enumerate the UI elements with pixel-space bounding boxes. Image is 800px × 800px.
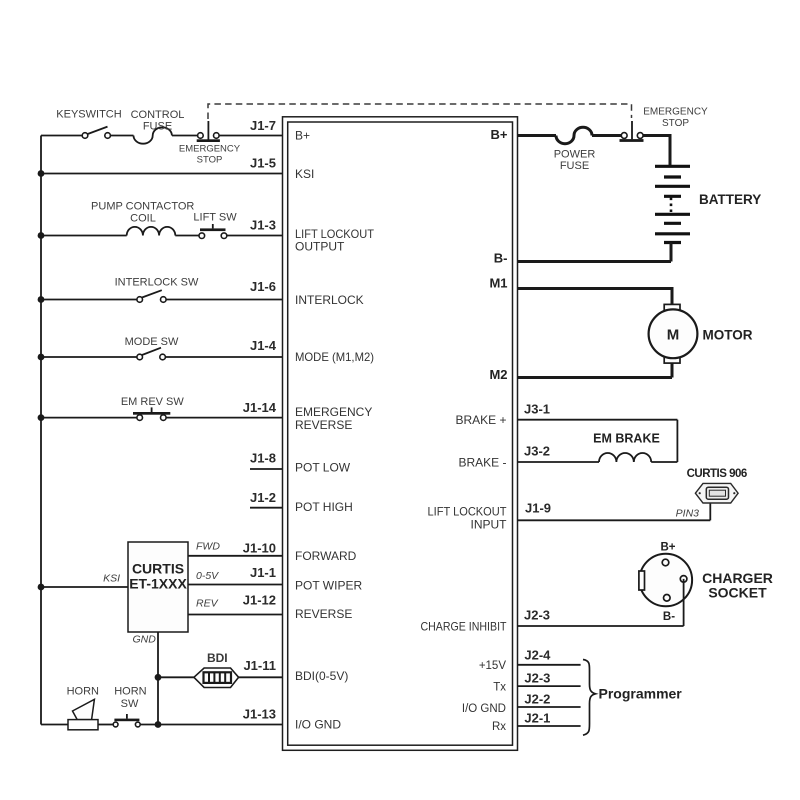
svg-text:J1-1: J1-1 [250,565,276,580]
svg-text:MODE SW: MODE SW [125,336,179,348]
wire battery bottom to B- [518,243,672,262]
svg-text:B-: B- [494,251,508,266]
svg-text:Rx: Rx [492,721,506,733]
svg-text:M: M [667,327,680,344]
svg-text:EM REV SW: EM REV SW [121,396,185,408]
wire J1-4 row [41,356,283,358]
em rev switch [133,407,170,420]
svg-text:J1-11: J1-11 [243,658,276,673]
svg-text:HORN: HORN [67,686,99,698]
svg-text:SW: SW [121,698,139,710]
control fuse [134,127,172,143]
svg-text:FUSE: FUSE [560,160,589,172]
svg-text:FUSE: FUSE [143,121,172,133]
svg-text:J1-7: J1-7 [250,118,276,133]
wire J1-5 row [41,173,283,175]
svg-text:MOTOR: MOTOR [703,328,753,343]
horn switch [113,714,140,727]
power fuse [556,127,592,143]
left vertical bus wire [40,136,42,725]
svg-text:J1-2: J1-2 [250,490,276,505]
svg-text:0-5V: 0-5V [196,570,219,582]
em brake coil [599,453,651,462]
svg-text:ET-1XXX: ET-1XXX [129,576,187,592]
junction dot [38,296,45,303]
svg-text:J2-3: J2-3 [524,670,550,685]
mode switch [137,348,166,360]
svg-text:I/O GND: I/O GND [295,718,341,732]
svg-text:I/O GND: I/O GND [462,703,506,715]
horn [68,699,98,730]
svg-text:BRAKE -: BRAKE - [458,455,506,469]
svg-text:J1-5: J1-5 [250,156,276,171]
svg-text:J2-3: J2-3 [524,608,550,623]
svg-text:EM BRAKE: EM BRAKE [593,431,660,445]
svg-text:SOCKET: SOCKET [708,585,767,601]
svg-text:COIL: COIL [130,213,156,225]
svg-text:CURTIS: CURTIS [132,561,184,577]
emergency stop switch (left) [197,121,220,142]
svg-text:CONTROL: CONTROL [131,109,185,121]
svg-text:J1-10: J1-10 [243,541,276,556]
wire J1-11 row [158,676,283,678]
svg-text:BDI: BDI [207,651,228,665]
svg-text:Tx: Tx [493,681,506,693]
svg-text:FORWARD: FORWARD [295,549,357,563]
svg-text:INTERLOCK SW: INTERLOCK SW [115,276,199,288]
svg-text:HORN: HORN [114,686,146,698]
keyswitch [82,127,110,139]
svg-text:BRAKE +: BRAKE + [455,413,506,427]
emergency stop switch (right) [620,121,644,142]
wire J1-3 row [41,235,283,237]
svg-text:J3-2: J3-2 [524,443,550,458]
battery [655,166,690,242]
svg-text:STOP: STOP [662,118,689,129]
svg-text:M2: M2 [489,367,507,382]
pump contactor coil [127,227,176,236]
svg-text:EMERGENCY: EMERGENCY [179,143,241,154]
svg-text:STOP: STOP [197,155,223,166]
svg-text:REVERSE: REVERSE [295,607,352,621]
svg-text:J2-4: J2-4 [524,647,551,662]
svg-text:B+: B+ [295,129,310,143]
svg-text:EMERGENCY: EMERGENCY [643,107,708,118]
svg-text:KSI: KSI [295,167,314,181]
svg-text:J2-1: J2-1 [524,710,550,725]
svg-text:MODE (M1,M2): MODE (M1,M2) [295,350,374,364]
wire J1-9 row [518,503,711,521]
wire J1-2 stub [250,507,283,509]
programmer wires J2-4..J2-1 [518,665,581,726]
svg-text:+15V: +15V [479,660,507,672]
svg-text:B+: B+ [660,542,675,554]
svg-text:INTERLOCK: INTERLOCK [295,293,364,307]
svg-text:REVERSE: REVERSE [295,418,352,432]
BDI gauge symbol [194,668,239,688]
svg-text:FWD: FWD [196,541,220,553]
svg-text:CURTIS 906: CURTIS 906 [687,468,747,480]
charger socket [639,554,692,626]
svg-text:REV: REV [196,597,219,609]
throttle box CURTIS ET-1XXX [128,542,188,632]
svg-text:BATTERY: BATTERY [699,192,761,207]
svg-text:OUTPUT: OUTPUT [295,240,345,254]
svg-text:J1-6: J1-6 [250,279,276,294]
svg-text:INPUT: INPUT [471,518,508,532]
svg-text:POT LOW: POT LOW [295,461,351,475]
wire J1-1 row [188,584,283,586]
lift switch [199,224,227,239]
svg-text:PIN3: PIN3 [676,507,700,519]
svg-text:Programmer: Programmer [599,686,683,702]
svg-text:M1: M1 [489,276,507,291]
svg-text:BDI(0-5V): BDI(0-5V) [295,669,348,683]
svg-text:B-: B- [663,611,675,623]
junction dot [38,584,45,591]
wire J1-14 row [41,417,283,419]
wire J1-8 stub [250,468,283,470]
wire brake+ row / em brake box [518,420,678,462]
interlock switch [137,290,166,302]
junction dot [155,674,162,681]
curtis 906 connector [695,483,738,503]
wire J1-12 row [188,614,283,616]
wire M1 row (thick) [518,287,673,304]
svg-text:POT WIPER: POT WIPER [295,579,362,593]
svg-text:J2-2: J2-2 [524,692,550,707]
svg-text:LIFT LOCKOUT: LIFT LOCKOUT [428,505,508,519]
svg-text:EMERGENCY: EMERGENCY [295,405,372,419]
wire GND vertical [157,632,159,725]
svg-text:KEYSWITCH: KEYSWITCH [56,109,121,121]
wire J1-6 row [41,299,283,301]
svg-text:J1-8: J1-8 [250,451,276,466]
controller box (double border) [283,117,518,751]
svg-text:J1-13: J1-13 [243,707,276,722]
svg-text:J3-1: J3-1 [524,402,550,417]
wire M2 row (thick) [518,363,673,377]
svg-text:J1-3: J1-3 [250,218,276,233]
svg-text:J1-12: J1-12 [243,593,276,608]
svg-text:POT HIGH: POT HIGH [295,500,353,514]
wire J1-13 / horn row [41,724,283,726]
junction dot [38,232,45,239]
svg-text:B+: B+ [491,127,508,142]
svg-text:J1-9: J1-9 [525,500,551,515]
svg-text:CHARGE INHIBIT: CHARGE INHIBIT [421,619,508,633]
programmer brace [583,660,596,736]
dashed emergency-stop link line [208,104,632,119]
svg-text:POWER: POWER [554,149,596,161]
wire B+ row (thick) [518,134,671,166]
wire J1-7 row [41,135,283,137]
svg-text:LIFT SW: LIFT SW [193,212,237,224]
svg-text:GND: GND [133,634,157,646]
wire charge inhibit row [518,625,684,627]
wire J1-10 row [188,555,283,557]
svg-text:KSI: KSI [103,572,120,584]
junction dot [38,414,45,421]
svg-text:PUMP CONTACTOR: PUMP CONTACTOR [91,200,194,212]
junction dot [38,170,45,177]
battery dotted mid link [670,198,673,213]
svg-text:J1-4: J1-4 [250,338,277,353]
motor [649,304,698,363]
junction dot [155,721,162,728]
svg-text:J1-14: J1-14 [243,400,277,415]
junction dot [38,354,45,361]
wire KSI row [41,586,128,588]
